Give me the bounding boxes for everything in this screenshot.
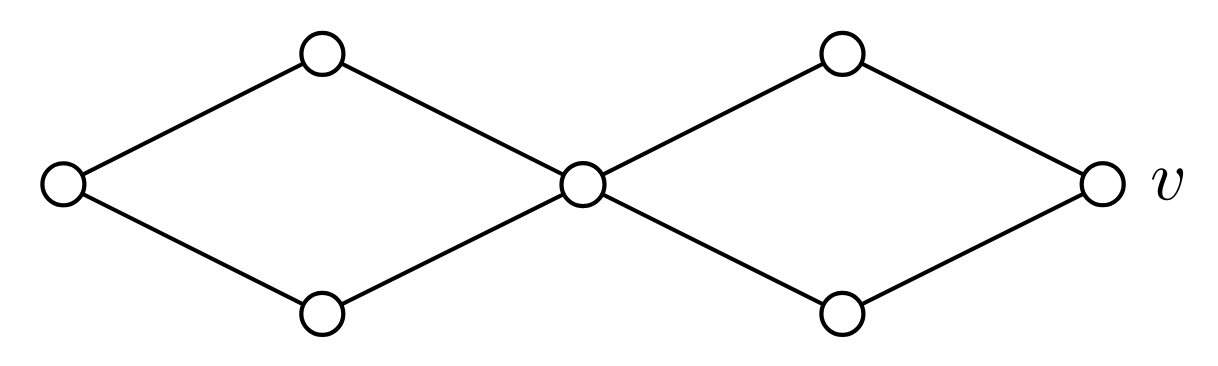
wire B-D (322, 54, 583, 185)
wire E-G (843, 54, 1103, 184)
node G (right, vertex v) (1082, 163, 1124, 205)
wire A-C (63, 184, 322, 314)
label v (math italic) (1152, 168, 1183, 200)
node D (center) (562, 163, 605, 206)
wire D-E (583, 54, 843, 185)
wire C-D (322, 185, 583, 314)
wire F-G (842, 184, 1102, 314)
node E (top-right) (822, 33, 864, 75)
wire A-B (63, 54, 322, 184)
node B (top-left) (301, 33, 343, 75)
node A (left) (42, 163, 84, 205)
node F (bottom-right) (821, 293, 863, 335)
node C (bottom-left) (301, 293, 343, 335)
wire D-F (583, 185, 842, 314)
